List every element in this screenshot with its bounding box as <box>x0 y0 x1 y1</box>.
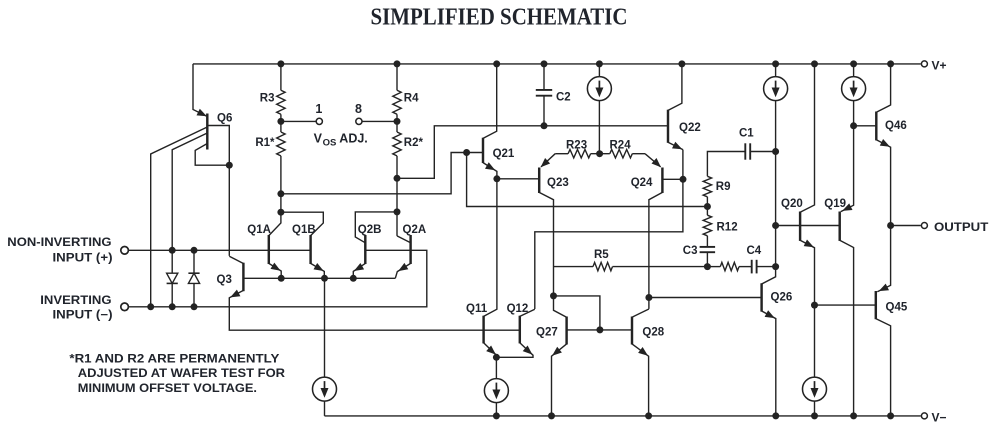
title <box>371 4 628 31</box>
label Q3 <box>217 274 232 286</box>
label Q2A <box>403 224 427 236</box>
wire Q22 emitter to Q12 collector <box>535 150 683 309</box>
node Q27 emitter on V- rail <box>548 412 555 419</box>
label INPUT (-) <box>53 310 113 322</box>
wire Q27-Q28 base drive <box>554 296 600 330</box>
node R4 top on V+ rail <box>394 60 401 67</box>
svg-text:R9: R9 <box>716 181 731 193</box>
svg-text:1: 1 <box>315 102 322 116</box>
wire Q3 emitter to Q11-Q12 bases <box>229 298 520 330</box>
label C4 <box>747 245 762 257</box>
transistor Q26 <box>762 267 776 416</box>
transistor Q1B <box>281 212 324 278</box>
resistor R11 (unlabeled) <box>720 262 739 270</box>
svg-text:INVERTING: INVERTING <box>40 295 111 307</box>
current source I5 <box>842 77 866 101</box>
svg-text:C3: C3 <box>683 245 698 257</box>
wire R2 bottom lead <box>396 156 398 236</box>
wire I5 top lead <box>853 64 855 77</box>
capacitor C4 <box>752 260 757 274</box>
node I4 top on V+ rail <box>772 60 779 67</box>
node I3 on V- rail <box>493 412 500 419</box>
node Q28 emitter on V- rail <box>645 412 652 419</box>
label C3 <box>683 245 698 257</box>
wire R4-R2 junction lead <box>396 114 398 132</box>
resistor R9 <box>703 176 711 197</box>
wire I6 to V- rail <box>814 401 816 416</box>
svg-text:Q2A: Q2A <box>403 224 427 236</box>
svg-text:R4: R4 <box>404 93 419 105</box>
svg-text:C1: C1 <box>739 128 754 140</box>
transistor Q24 <box>645 154 662 309</box>
svg-text:R24: R24 <box>610 139 632 151</box>
wire Q6 base to Q3 collector <box>207 126 229 256</box>
transistor Q12 <box>496 309 534 357</box>
wire non-inverting input <box>129 249 311 251</box>
label Q28 <box>642 326 664 338</box>
wire Q24 base <box>662 178 683 180</box>
capacitor C3 <box>700 247 716 252</box>
wire Q46 base <box>854 125 877 127</box>
label V+ <box>932 58 947 72</box>
label R3 <box>260 93 275 105</box>
current source I1 (input tail) <box>313 377 337 401</box>
node diode D2 top <box>191 247 198 254</box>
terminal non-inverting input <box>121 247 129 255</box>
wire C1 right lead <box>751 151 776 153</box>
transistor Q2B <box>353 212 397 278</box>
svg-text:Q19: Q19 <box>824 198 846 210</box>
svg-text:Q27: Q27 <box>536 326 558 338</box>
node R3 top on V+ rail <box>277 60 284 67</box>
current source I4 <box>764 77 788 101</box>
label R24 <box>610 139 632 151</box>
label R23 <box>566 139 587 151</box>
svg-text:Q24: Q24 <box>631 177 653 189</box>
node C3 bottom junction <box>704 263 711 270</box>
svg-text:C4: C4 <box>747 245 762 257</box>
svg-text:Q6: Q6 <box>217 113 232 125</box>
label Q46 <box>885 120 907 132</box>
resistor R2* <box>393 132 401 156</box>
label Q2B <box>358 224 382 236</box>
node Q6 base junction <box>226 162 233 169</box>
label C1 <box>739 128 754 140</box>
note line 3 <box>78 381 257 395</box>
label R4 <box>404 93 419 105</box>
wire emitter bus <box>243 277 395 279</box>
node C2 bottom <box>541 122 548 129</box>
node I2 top on V+ rail <box>596 60 603 67</box>
svg-text:Q12: Q12 <box>507 303 529 315</box>
wire R3-R1 junction lead <box>280 114 282 132</box>
resistor R4 <box>393 90 401 114</box>
svg-text:Q1B: Q1B <box>292 224 316 236</box>
terminal V- <box>921 413 927 419</box>
label OUTPUT <box>934 220 989 234</box>
label Q19 <box>824 198 846 210</box>
node tail junction <box>321 275 328 282</box>
node diode D2 bottom <box>191 303 198 310</box>
wire Q45 base <box>815 304 876 306</box>
svg-text:Q22: Q22 <box>679 122 701 134</box>
wire emitters to I3 <box>495 357 497 379</box>
label R5 <box>594 249 609 261</box>
svg-text:Q28: Q28 <box>642 326 664 338</box>
label Q26 <box>771 292 793 304</box>
transistor Q45 <box>876 226 891 416</box>
wire I4 down the compensation column <box>775 100 777 266</box>
terminal inverting input <box>121 303 129 311</box>
label R1* <box>255 137 275 149</box>
wire R23-R24 junction <box>591 153 610 155</box>
node Q11-Q12 emitters <box>493 354 500 361</box>
wire inverting input <box>129 250 427 306</box>
transistor Q20 <box>800 64 814 378</box>
node Q26 emitter on V- rail <box>772 412 779 419</box>
svg-text:V: V <box>314 131 323 145</box>
label pin 8 <box>355 102 362 116</box>
wire R5 left lead <box>554 266 594 268</box>
svg-text:R1*: R1* <box>255 137 275 149</box>
note line 1 <box>69 351 279 365</box>
node Q27-Q28 base junction <box>596 326 603 333</box>
label Q11 <box>466 303 488 315</box>
svg-text:OUTPUT: OUTPUT <box>934 220 989 234</box>
node pin8 junction <box>394 118 401 125</box>
resistor R1* <box>277 132 285 156</box>
transistor Q22 <box>668 64 683 150</box>
wire V- rail <box>325 415 921 417</box>
resistor R23 <box>568 150 591 158</box>
wire R23 left lead <box>555 153 568 155</box>
wire Q19-Q20 bases <box>776 225 840 227</box>
label V- <box>932 410 947 424</box>
svg-text:Q21: Q21 <box>493 148 515 160</box>
wire output <box>891 225 921 227</box>
wire R2 bottom to Q22 base <box>397 126 668 179</box>
wire I4 top lead <box>775 64 777 77</box>
svg-text:Q11: Q11 <box>466 303 488 315</box>
wire I2 top lead <box>598 64 600 77</box>
wire Q26 base <box>649 297 762 299</box>
wire tail <box>324 278 326 377</box>
transistor Q11 <box>484 179 497 357</box>
pin 8 terminal <box>356 118 362 124</box>
transistor Q46 <box>876 64 890 226</box>
wire I2 to R23-R24 junction <box>598 100 600 154</box>
note line 2 <box>78 366 286 380</box>
label C2 <box>556 91 571 103</box>
wire R1 bottom lead <box>280 156 282 212</box>
label R12 <box>717 222 738 234</box>
node Q45 collector on V- rail <box>887 412 894 419</box>
wire C1 left to R9 <box>707 152 745 177</box>
svg-text:ADJUSTED AT WAFER TEST FOR: ADJUSTED AT WAFER TEST FOR <box>78 366 286 380</box>
svg-text:Q2B: Q2B <box>358 224 382 236</box>
node C1 right <box>772 148 779 155</box>
wire Q6 collector-base loop <box>195 144 229 166</box>
node Q46 collector on V+ rail <box>887 60 894 67</box>
transistor Q21 <box>483 64 497 179</box>
transistor Q6 <box>193 64 207 150</box>
node I6 bottom on V- rail <box>811 412 818 419</box>
resistor R3 <box>277 90 285 114</box>
current source I6 <box>803 377 827 401</box>
svg-text:Q26: Q26 <box>771 292 793 304</box>
node diode D1 top <box>169 247 176 254</box>
label Q12 <box>507 303 529 315</box>
node Q45 base tap <box>811 302 818 309</box>
wire R11 to C4 <box>739 266 751 268</box>
wire R9 bottom lead <box>706 197 708 215</box>
node Q2 collectors junction <box>394 208 401 215</box>
svg-text:OS: OS <box>323 137 337 148</box>
svg-text:Q23: Q23 <box>547 177 569 189</box>
svg-text:INPUT (+): INPUT (+) <box>53 253 113 265</box>
label Q45 <box>886 301 908 313</box>
wire C3 bottom lead <box>706 253 708 267</box>
node Q20 collector on V+ rail <box>811 60 818 67</box>
node C4 right <box>772 263 779 270</box>
transistor Q2A <box>395 235 410 278</box>
node Q19-Q20 base junction <box>772 222 779 229</box>
svg-text:Q3: Q3 <box>217 274 232 286</box>
node pin1 junction <box>277 118 284 125</box>
wire C4 right lead <box>757 266 776 268</box>
label NON-INVERTING <box>7 237 111 249</box>
wire R5 to C3 node <box>613 266 708 268</box>
wire pin 8 <box>362 120 397 122</box>
label pin 1 <box>315 102 322 116</box>
current source I3 <box>484 379 508 403</box>
wire V+ rail <box>193 63 921 65</box>
node Q22 collector on V+ rail <box>678 60 685 67</box>
terminal OUTPUT <box>921 223 927 229</box>
svg-text:R5: R5 <box>594 249 609 261</box>
transistor Q1A <box>269 212 281 278</box>
node I5 top on V+ rail <box>850 60 857 67</box>
svg-text:V+: V+ <box>932 58 947 72</box>
node R23-R24 junction <box>596 150 603 157</box>
node diode D1 bottom <box>169 303 176 310</box>
diode D2 <box>188 250 199 306</box>
node output junction <box>887 222 894 229</box>
svg-text:*R1 AND R2 ARE PERMANENTLY: *R1 AND R2 ARE PERMANENTLY <box>69 351 279 365</box>
capacitor C1 <box>745 143 750 159</box>
wire Q6 collector to non-inverting input <box>172 133 207 250</box>
wire C2 top lead <box>543 64 545 90</box>
capacitor C2 <box>536 90 552 96</box>
wire R1 bottom to Q21 base <box>281 153 483 194</box>
wire I3 to V- rail <box>495 402 497 416</box>
wire Q27-Q28 bases <box>567 329 632 331</box>
node Q1A emitter - Q3 base <box>278 275 285 282</box>
label VOS ADJ. <box>314 131 368 148</box>
svg-text:8: 8 <box>355 102 362 116</box>
label Q1A <box>247 224 271 236</box>
label R9 <box>716 181 731 193</box>
wire Q21 base to R9-R12 junction <box>467 153 708 207</box>
label Q1B <box>292 224 316 236</box>
node Q21 base <box>463 149 470 156</box>
svg-text:NON-INVERTING: NON-INVERTING <box>7 237 111 249</box>
svg-text:C2: C2 <box>556 91 571 103</box>
transistor Q23 <box>539 154 555 296</box>
label Q6 <box>217 113 232 125</box>
svg-text:V−: V− <box>932 410 947 424</box>
label Q23 <box>547 177 569 189</box>
transistor Q27 <box>552 296 567 416</box>
node Q6 collector at inverting input <box>147 303 154 310</box>
svg-text:Q1A: Q1A <box>247 224 271 236</box>
transistor Q3 <box>229 256 243 298</box>
label Q22 <box>679 122 701 134</box>
node Q21 emitter - Q23 base <box>493 175 500 182</box>
svg-text:R2*: R2* <box>404 137 424 149</box>
node R1 bottom to Q21 base wire <box>277 190 284 197</box>
wire tail to V- rail <box>324 401 326 416</box>
node Q24 base on Q22 emitter <box>680 176 687 183</box>
label Q27 <box>536 326 558 338</box>
transistor Q28 <box>632 309 649 416</box>
node Q19 collector on V- rail <box>850 412 857 419</box>
resistor R12 <box>703 215 711 236</box>
node C2 top on V+ rail <box>541 60 548 67</box>
svg-text:Q46: Q46 <box>885 120 907 132</box>
svg-text:ADJ.: ADJ. <box>339 131 367 145</box>
wire Q23 base <box>497 178 539 180</box>
wire R24 right lead <box>632 153 645 155</box>
svg-text:R12: R12 <box>717 222 738 234</box>
wire R3 top lead <box>280 64 282 90</box>
node R9-R12 junction <box>704 203 711 210</box>
label INVERTING <box>40 295 111 307</box>
svg-text:Q45: Q45 <box>886 301 908 313</box>
svg-text:R3: R3 <box>260 93 275 105</box>
terminal V+ <box>921 61 927 67</box>
wire R11 left lead <box>707 266 720 268</box>
resistor R5 <box>593 262 612 270</box>
diode D1 <box>167 250 178 306</box>
pin 1 terminal <box>316 118 322 124</box>
label R2* <box>404 137 424 149</box>
wire Q6 collector to inverting input <box>151 127 208 307</box>
label INPUT (+) <box>53 253 113 265</box>
svg-text:INPUT (−): INPUT (−) <box>53 310 113 322</box>
svg-text:Q20: Q20 <box>781 198 803 210</box>
node Q21 collector on V+ rail <box>493 60 500 67</box>
label Q21 <box>493 148 515 160</box>
transistor Q19 <box>840 100 854 416</box>
node Q46 base tap <box>850 122 857 129</box>
resistor R24 <box>610 150 633 158</box>
node Q24-Q28 collectors to Q26 base <box>645 294 652 301</box>
wire R12 to C3 <box>706 236 708 247</box>
node R2 bottom to Q22 base wire <box>394 175 401 182</box>
wire R4 top lead <box>396 64 398 90</box>
node Q23 collector junction <box>550 292 557 299</box>
svg-text:R23: R23 <box>566 139 587 151</box>
wire pin 1 <box>281 120 316 122</box>
wire C2 bottom lead <box>543 96 545 126</box>
label Q20 <box>781 198 803 210</box>
current source I2 <box>587 77 611 101</box>
label Q24 <box>631 177 653 189</box>
node Q1 collectors junction <box>277 209 284 216</box>
svg-text:MINIMUM OFFSET VOLTAGE.: MINIMUM OFFSET VOLTAGE. <box>78 381 257 395</box>
svg-text:SIMPLIFIED SCHEMATIC: SIMPLIFIED SCHEMATIC <box>371 4 628 31</box>
node Q2B emitter <box>350 275 357 282</box>
